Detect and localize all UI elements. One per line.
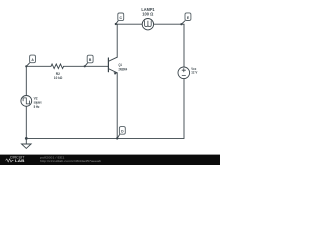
junction dot ground node (25, 137, 28, 140)
svg-text:12 V: 12 V (191, 70, 197, 75)
CircuitLab logo (6, 156, 25, 163)
svg-text:LAB: LAB (15, 159, 25, 163)
svg-text:2N3904: 2N3904 (119, 68, 128, 72)
wire emitter vertical (116, 73, 118, 139)
voltage source V2 square (21, 96, 32, 107)
svg-text:http://circuitlab.com/c/4644a4: http://circuitlab.com/c/4644a457aeeab (40, 159, 101, 163)
wire V2 top vertical (25, 66, 27, 95)
svg-text:5 Hz: 5 Hz (34, 105, 40, 109)
node B flag (84, 55, 94, 67)
voltage source V1 (Vcc 12 V) (178, 67, 190, 79)
ground triangle (22, 144, 32, 148)
wire top right segment (154, 23, 184, 25)
transistor Q1 base bar (107, 58, 109, 72)
wire top left segment (117, 23, 142, 25)
lamp LAMP1 (142, 19, 153, 30)
transistor Q1 emitter arrowhead (114, 72, 118, 75)
wire right branch lower (183, 79, 185, 139)
wire collector vertical (116, 24, 118, 57)
wire V2 bottom vertical (25, 106, 27, 138)
wire bottom (26, 137, 184, 139)
wire right branch upper (183, 24, 185, 67)
wire base from node A to resistor (26, 65, 51, 67)
ground stem (25, 138, 27, 144)
svg-text:100 Ω: 100 Ω (142, 11, 154, 16)
resistor R2 (51, 64, 64, 69)
node C flag (115, 13, 124, 25)
transistor Q1 emitter diagonal (108, 69, 117, 73)
node E flag (180, 13, 191, 25)
wire resistor to base (64, 65, 109, 67)
watermark bar (0, 155, 220, 165)
svg-text:10 kΩ: 10 kΩ (54, 76, 62, 80)
transistor Q1 collector diagonal (108, 57, 117, 61)
svg-text:Q1: Q1 (119, 63, 122, 67)
node A flag (25, 55, 35, 67)
node D flag (116, 127, 125, 140)
